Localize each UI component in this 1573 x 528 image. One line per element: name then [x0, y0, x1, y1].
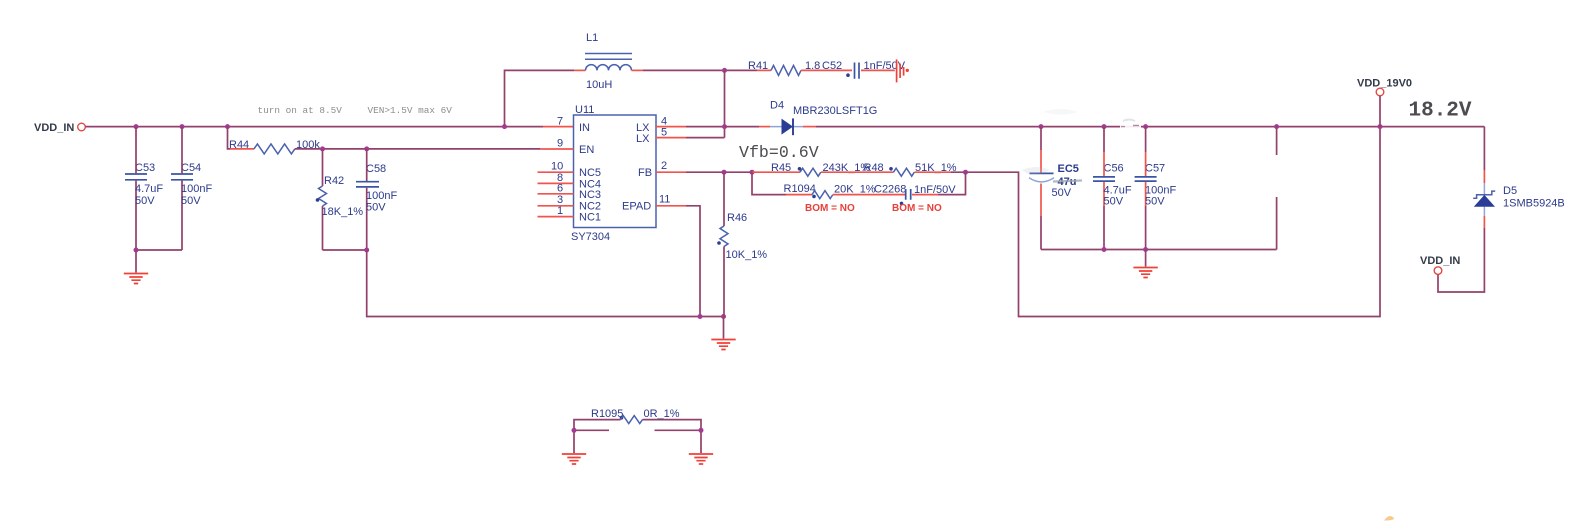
- junction EN row at R42: [320, 146, 325, 151]
- resistor R1094: [784, 183, 906, 199]
- pin 4 LX stub: [656, 116, 686, 128]
- junction rail at VDD_19V0: [1378, 124, 1383, 129]
- ground (below C53/C54): [124, 274, 148, 284]
- capacitor C54: [171, 127, 212, 250]
- svg-text:SY7304: SY7304: [571, 231, 610, 243]
- svg-text:9: 9: [557, 138, 563, 150]
- wire D4 cathode to output rail: [803, 126, 1484, 128]
- svg-text:EN: EN: [579, 144, 594, 156]
- svg-text:100nF: 100nF: [181, 183, 212, 195]
- pin 1 NC1 stub: [538, 205, 574, 217]
- capacitor C2268: [874, 184, 956, 206]
- wire U11 pin7 red stub: [543, 126, 574, 128]
- svg-text:7: 7: [557, 116, 563, 128]
- svg-text:R1095: R1095: [591, 408, 623, 420]
- resistor R42: [316, 149, 364, 250]
- svg-text:10: 10: [551, 161, 563, 173]
- svg-text:1.8: 1.8: [805, 60, 820, 72]
- svg-text:20K_1%: 20K_1%: [834, 184, 876, 196]
- wire R1095 top row: [574, 420, 701, 453]
- wire rail corner down to D5: [1483, 127, 1485, 183]
- capacitor C53: [125, 127, 163, 250]
- junction C53 ground node: [134, 248, 139, 253]
- svg-text:10uH: 10uH: [586, 79, 612, 91]
- junction rail at C56: [1102, 124, 1107, 129]
- pin 5 LX stub: [656, 127, 686, 139]
- ground (rotated, right of C52): [897, 59, 909, 82]
- svg-text:U11: U11: [575, 104, 594, 116]
- svg-text:6: 6: [557, 183, 563, 195]
- svg-text:0R_1%: 0R_1%: [644, 408, 680, 420]
- ground (below R1095 right): [689, 454, 713, 464]
- wire ground stem C53: [135, 250, 137, 273]
- capacitor C52: [822, 60, 906, 79]
- wire LX riser: [724, 70, 726, 137]
- artifact white smudge on rail: [1120, 119, 1141, 132]
- svg-text:D4: D4: [770, 100, 784, 112]
- junction FB network right end: [963, 170, 968, 175]
- junction FB at R46: [722, 170, 727, 175]
- svg-text:turn on at 8.5V: turn on at 8.5V: [258, 105, 343, 116]
- node VDD_IN (left input terminal): [34, 122, 85, 134]
- junction rail at EC5: [1039, 124, 1044, 129]
- resistor R48: [864, 162, 957, 176]
- wire gap stub upper: [1276, 127, 1278, 155]
- svg-text:LX: LX: [636, 133, 650, 145]
- svg-text:C58: C58: [366, 163, 386, 175]
- resistor R41: [748, 60, 852, 75]
- svg-text:C54: C54: [181, 162, 201, 174]
- svg-text:R46: R46: [727, 212, 747, 224]
- svg-text:R42: R42: [324, 175, 344, 187]
- svg-text:C2268: C2268: [874, 184, 906, 196]
- svg-text:C57: C57: [1145, 163, 1165, 175]
- resistor R44: [229, 139, 320, 154]
- junction R1095 left: [572, 428, 577, 433]
- pin 10 NC5 stub: [538, 161, 574, 173]
- svg-text:L1: L1: [586, 32, 598, 44]
- junction R1095 right: [699, 428, 704, 433]
- resistor R46: [717, 172, 767, 316]
- wire R45 to R48: [821, 171, 894, 173]
- svg-text:VEN>1.5V max 6V: VEN>1.5V max 6V: [368, 105, 453, 116]
- svg-text:50V: 50V: [1104, 196, 1124, 208]
- svg-text:2: 2: [661, 160, 667, 172]
- ground (below R1095 left): [562, 454, 586, 464]
- wire FB lower branch drop: [752, 172, 786, 194]
- wire D5 anode down and to VDD_IN: [1438, 216, 1484, 292]
- inductor L1: [574, 32, 643, 91]
- ground (below R46 rail): [711, 340, 735, 350]
- svg-text:EC5: EC5: [1058, 163, 1079, 175]
- svg-text:4.7uF: 4.7uF: [135, 183, 163, 195]
- svg-text:BOM = NO: BOM = NO: [892, 203, 942, 214]
- pin 3 NC2 stub: [538, 194, 574, 206]
- svg-text:50V: 50V: [366, 202, 386, 214]
- svg-text:VDD_19V0: VDD_19V0: [1357, 78, 1412, 90]
- capacitor C58: [356, 149, 397, 250]
- svg-text:R1094: R1094: [784, 183, 816, 195]
- wire L1 riser: [505, 70, 575, 126]
- wire LX node to D4: [725, 126, 771, 128]
- svg-text:Vfb=0.6V: Vfb=0.6V: [739, 143, 819, 162]
- junction top rail at R44 drop: [225, 124, 230, 129]
- svg-text:50V: 50V: [1145, 196, 1165, 208]
- svg-text:1: 1: [557, 205, 563, 217]
- svg-text:D5: D5: [1503, 185, 1517, 197]
- wire LX pins to riser: [686, 127, 725, 138]
- junction rail at gap stub: [1274, 124, 1279, 129]
- artifact gray smear near EC5: [1022, 109, 1078, 174]
- svg-text:18.2V: 18.2V: [1409, 100, 1472, 123]
- resistor R45: [752, 162, 870, 176]
- svg-text:50V: 50V: [135, 195, 155, 207]
- svg-text:1SMB5924B: 1SMB5924B: [1503, 198, 1565, 210]
- svg-text:C52: C52: [822, 60, 842, 72]
- svg-text:NC5: NC5: [579, 167, 601, 179]
- svg-text:50V: 50V: [1052, 187, 1072, 199]
- wire lower-left rail: [367, 250, 724, 317]
- pin 9 number + EN red stub: [540, 138, 573, 150]
- wire mid bottom rail: [1041, 249, 1277, 251]
- wire R48 to output sense: [951, 127, 1380, 317]
- svg-text:10K_1%: 10K_1%: [726, 249, 768, 261]
- junction EPAD on lower rail: [698, 314, 703, 319]
- wire EN net R44 to U11: [295, 148, 541, 150]
- junction C58 bottom node: [364, 248, 369, 253]
- svg-text:C53: C53: [135, 162, 155, 174]
- svg-text:FB: FB: [638, 167, 652, 179]
- wire R42/C58 bottom join: [323, 249, 367, 251]
- svg-text:11: 11: [659, 194, 670, 206]
- ground (below C57): [1133, 268, 1157, 278]
- wire net VDD_IN top rail: [86, 126, 544, 128]
- wire VDD_19V0 stem: [1379, 96, 1381, 127]
- wire R44 drop from top rail: [228, 127, 231, 149]
- svg-text:VDD_IN: VDD_IN: [1420, 255, 1460, 267]
- junction bottom rail at C56: [1102, 247, 1107, 252]
- junction L1 / R41 / LX riser: [722, 68, 727, 73]
- svg-text:R48: R48: [864, 162, 884, 174]
- pin 8 NC4 stub: [538, 172, 574, 184]
- svg-text:50V: 50V: [181, 195, 201, 207]
- svg-text:EPAD: EPAD: [622, 201, 651, 213]
- wire L1 to R41/LX junction: [643, 69, 757, 71]
- svg-text:100nF: 100nF: [366, 190, 397, 202]
- svg-text:18K_1%: 18K_1%: [322, 206, 364, 218]
- svg-text:MBR230LSFT1G: MBR230LSFT1G: [793, 105, 877, 117]
- svg-text:5: 5: [661, 127, 667, 139]
- svg-text:NC1: NC1: [579, 212, 601, 224]
- svg-text:C56: C56: [1104, 163, 1124, 175]
- svg-text:VDD_IN: VDD_IN: [34, 122, 74, 134]
- diode D5 1SMB5924B (zener): [1473, 183, 1565, 216]
- wire left stub at R1095: [574, 429, 609, 431]
- wire EPAD net: [686, 206, 700, 317]
- capacitor C57: [1135, 127, 1177, 250]
- pin 11 EPAD stub: [656, 194, 686, 206]
- junction EN row at C58: [364, 146, 369, 151]
- artifact orange blob bottom right: [1384, 516, 1394, 520]
- capacitor C56: [1093, 127, 1132, 250]
- svg-text:BOM = NO: BOM = NO: [805, 203, 855, 214]
- junction top rail at L1 riser: [502, 124, 507, 129]
- junction R46 on lower rail: [721, 314, 726, 319]
- pin 6 NC3 stub: [538, 183, 574, 195]
- svg-text:NC3: NC3: [579, 189, 601, 201]
- node VDD_19V0 terminal: [1357, 78, 1412, 96]
- svg-text:IN: IN: [579, 122, 590, 134]
- wire ground stem R46 rail: [723, 317, 725, 339]
- resistor R1095: [591, 408, 680, 424]
- wire right stub at R1095: [655, 429, 702, 431]
- wire FB net from pin 2: [686, 171, 752, 173]
- node VDD_IN (right terminal): [1420, 255, 1460, 274]
- junction rail at C57: [1143, 124, 1148, 129]
- junction bottom rail at C57: [1143, 247, 1148, 252]
- wire C53/C54 bottom join: [136, 249, 182, 251]
- wire gap stub lower: [1276, 197, 1278, 250]
- diode D4 MBR230LSFT1G: [770, 100, 877, 136]
- junction top rail at C53: [134, 124, 139, 129]
- junction LX node: [722, 124, 727, 129]
- IC U11 SY7304: [571, 104, 656, 243]
- artifact smudge over 47u label: [1053, 181, 1082, 182]
- capacitor EC5 (electrolytic): [1029, 127, 1079, 250]
- wire ground stem C57: [1145, 250, 1147, 267]
- junction top rail at C54: [180, 124, 185, 129]
- junction FB at branch split: [750, 170, 755, 175]
- pin 2 FB stub: [656, 160, 686, 172]
- wire FB lower branch rejoin: [938, 172, 966, 194]
